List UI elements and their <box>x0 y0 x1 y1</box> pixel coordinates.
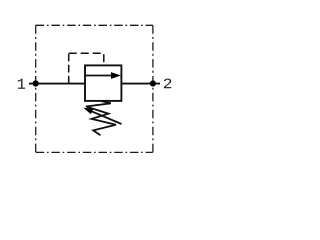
pilot line (dashed) vertical from wire <box>68 53 70 83</box>
adjustment arrow through spring <box>91 111 122 124</box>
node 1 (junction dot on boundary) <box>33 80 39 86</box>
valve body U1 (envelope square) <box>85 65 121 101</box>
port label 1 <box>18 79 25 89</box>
node 2 (junction dot on boundary) <box>150 80 156 86</box>
port label 2 <box>164 79 172 89</box>
enclosure boundary (dash-dot box) <box>36 25 153 152</box>
wire: port 1 to valve body <box>29 83 85 85</box>
flow arrow inside valve <box>85 75 112 77</box>
adjustable spring below valve <box>86 101 116 135</box>
pilot line (dashed) over and down to valve top <box>69 53 104 65</box>
wire: valve body to port 2 <box>121 83 160 85</box>
